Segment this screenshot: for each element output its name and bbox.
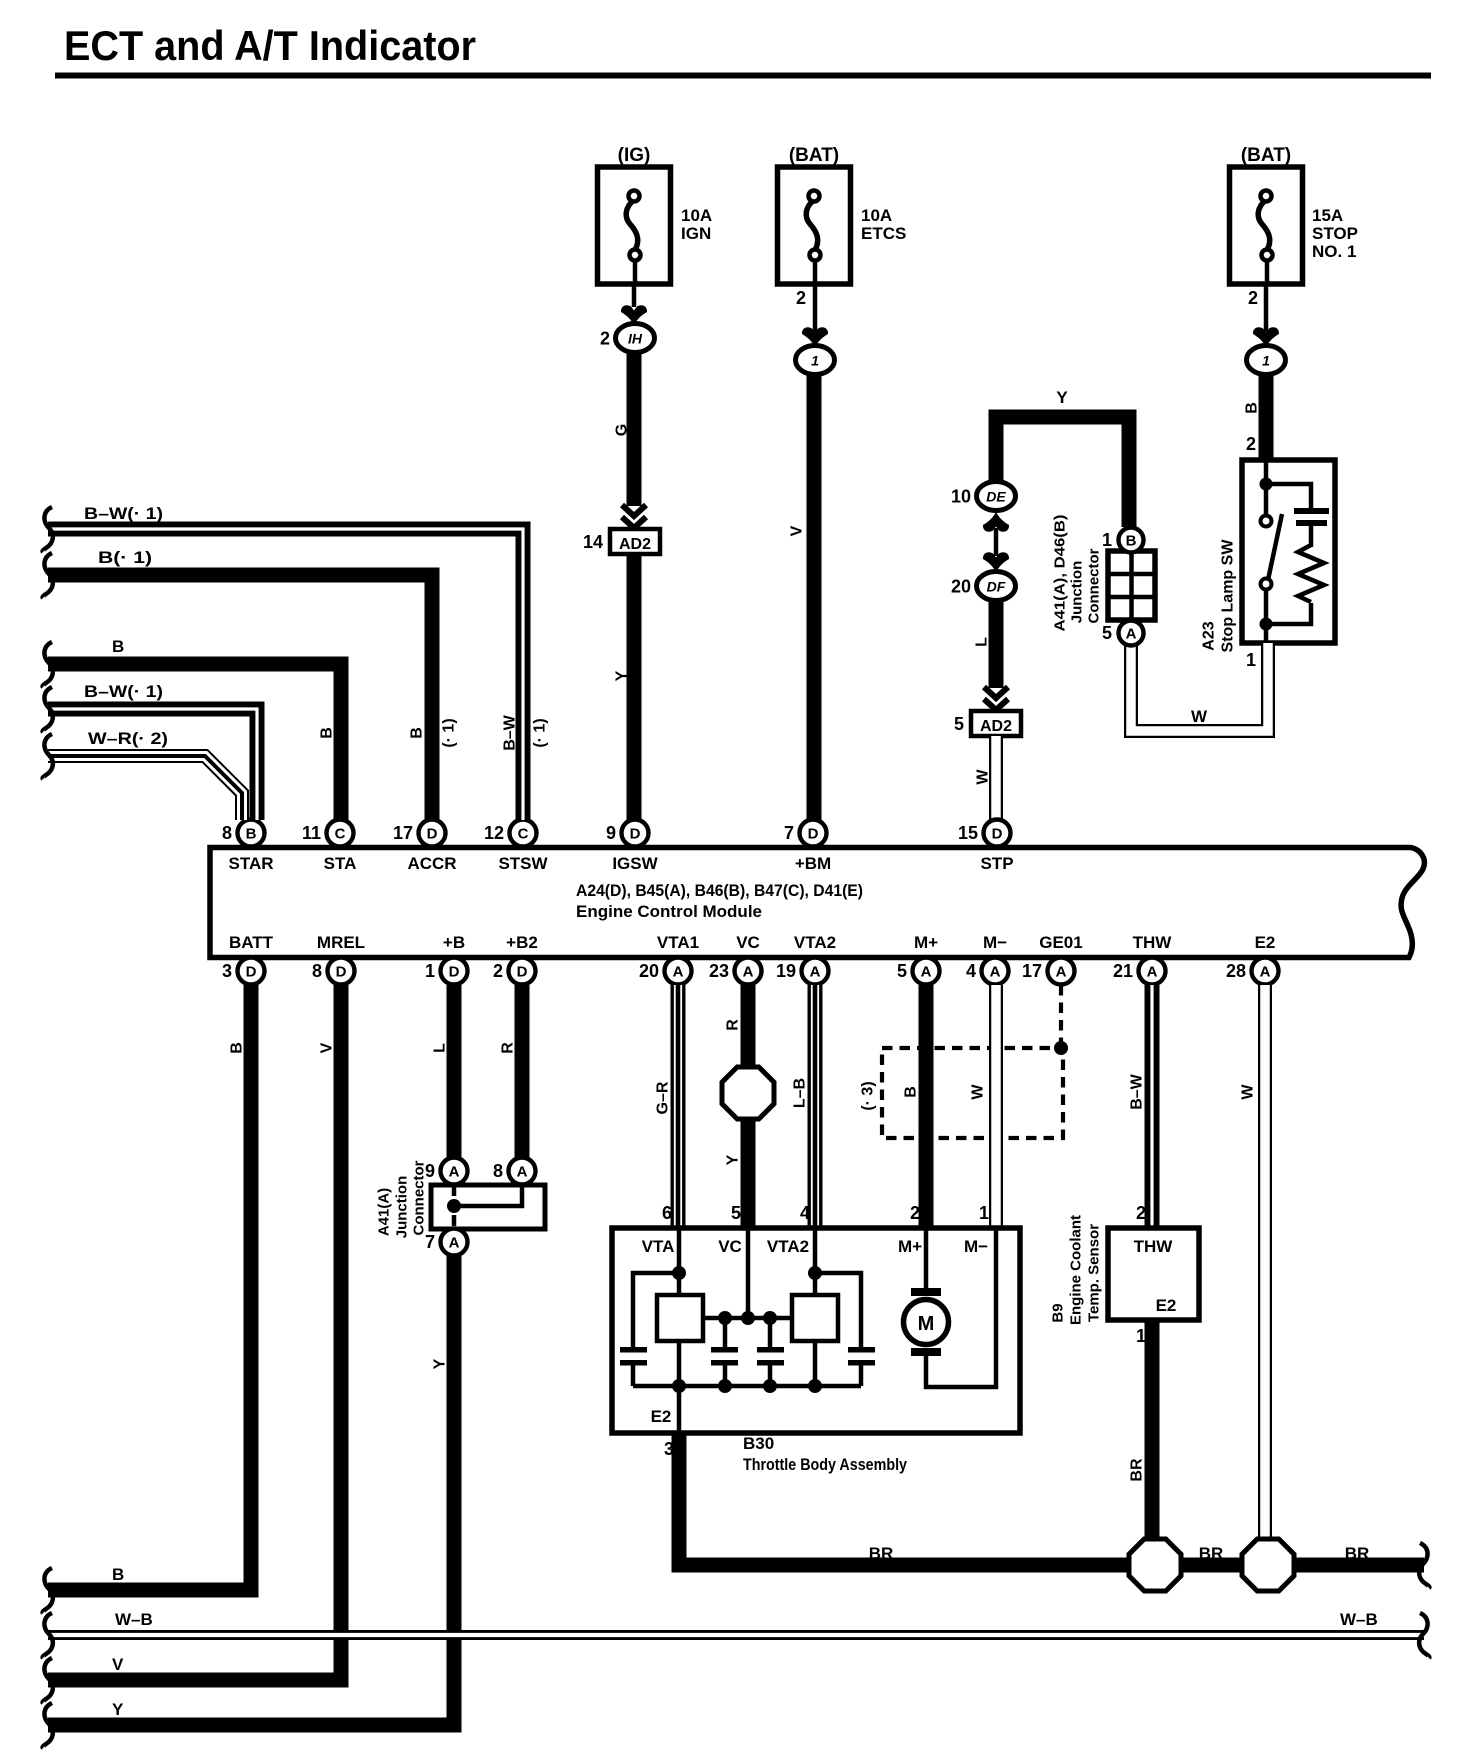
svg-text:BR: BR — [1129, 1458, 1146, 1482]
wire: fuse ETCS lead pin 2 — [813, 284, 818, 332]
svg-text:W–B: W–B — [115, 1610, 153, 1629]
svg-text:20: 20 — [951, 577, 971, 597]
wire L (DF to AD2) — [989, 600, 1004, 688]
svg-text:D: D — [336, 964, 347, 981]
svg-text:A: A — [517, 1164, 528, 1181]
svg-text:A: A — [449, 1164, 460, 1181]
svg-text:14: 14 — [583, 532, 603, 552]
svg-text:A: A — [673, 964, 684, 981]
svg-text:4: 4 — [800, 1203, 810, 1223]
wire L +B (pin 1 to junction 9) — [447, 985, 462, 1157]
svg-text:9: 9 — [606, 823, 616, 843]
junction connector A41(A) D46(B) grid — [1108, 551, 1155, 620]
svg-text:B: B — [319, 727, 336, 739]
svg-text:1: 1 — [1102, 530, 1112, 550]
octagon splice on VC wire — [722, 1067, 774, 1119]
curl W-B left — [43, 1613, 53, 1658]
svg-text:2: 2 — [1246, 434, 1256, 454]
curl W-R — [43, 734, 53, 779]
svg-text:M−: M− — [964, 1237, 988, 1256]
svg-text:7: 7 — [425, 1232, 435, 1252]
svg-text:ETCS: ETCS — [861, 224, 906, 243]
wire VC R/Y (pin 23 to throttle pin 5) — [741, 985, 756, 1228]
connector 7 A (junction) — [425, 1229, 468, 1256]
fuse 10A ETCS (BAT) — [778, 145, 907, 284]
svg-text:W: W — [1240, 1084, 1257, 1100]
svg-text:A: A — [1126, 626, 1137, 643]
wire W-R(.2) to STAR — [48, 756, 242, 820]
svg-text:L–B: L–B — [792, 1078, 809, 1108]
svg-text:R: R — [500, 1042, 517, 1054]
svg-text:E2: E2 — [1156, 1296, 1177, 1315]
arrow into IH connector — [621, 305, 647, 325]
wire B-W THW (pin 21 to sensor pin 2) — [1145, 985, 1160, 1228]
svg-text:IGN: IGN — [681, 224, 711, 243]
double chevron into AD2 — [622, 505, 646, 516]
svg-text:1: 1 — [979, 1203, 989, 1223]
svg-text:Y: Y — [725, 1154, 742, 1165]
wire V MREL (pin 8 to bottom left) — [48, 985, 341, 1680]
svg-text:E2: E2 — [1255, 933, 1276, 952]
svg-text:B: B — [1244, 402, 1261, 414]
svg-text:5: 5 — [1102, 623, 1112, 643]
svg-text:7: 7 — [784, 823, 794, 843]
svg-text:A: A — [743, 964, 754, 981]
svg-text:BR: BR — [1199, 1544, 1224, 1563]
svg-text:17: 17 — [1022, 961, 1042, 981]
svg-text:A23: A23 — [1201, 621, 1218, 650]
svg-text:1: 1 — [1136, 1326, 1146, 1346]
curl Y bottom — [43, 1703, 53, 1748]
svg-text:B: B — [246, 826, 257, 843]
svg-text:B: B — [409, 727, 426, 739]
svg-text:11: 11 — [302, 823, 321, 843]
svg-text:GE01: GE01 — [1039, 933, 1082, 952]
svg-text:A: A — [1056, 964, 1067, 981]
svg-text:MREL: MREL — [317, 933, 365, 952]
VTA sensor circuit — [677, 1228, 682, 1295]
svg-text:Y: Y — [432, 1358, 449, 1369]
svg-text:8: 8 — [222, 823, 232, 843]
svg-text:2: 2 — [1136, 1203, 1146, 1223]
svg-text:+B2: +B2 — [506, 933, 538, 952]
wire E2 out of sensor — [677, 1386, 682, 1433]
svg-text:B–W: B–W — [502, 714, 519, 750]
svg-text:IH: IH — [628, 331, 643, 347]
svg-text:THW: THW — [1133, 933, 1173, 952]
double chevron into AD2 (5) — [984, 687, 1008, 698]
svg-text:DF: DF — [987, 579, 1006, 595]
junction block 5 AD2 — [971, 711, 1021, 736]
svg-text:M: M — [918, 1313, 935, 1335]
svg-text:VTA: VTA — [642, 1237, 675, 1256]
wire Y (junction 7 to bottom left) — [48, 1256, 454, 1725]
svg-text:B: B — [112, 1565, 124, 1584]
svg-text:BR: BR — [1345, 1544, 1370, 1563]
engine coolant temp sensor B9 box — [1108, 1228, 1199, 1320]
svg-text:V: V — [112, 1655, 124, 1674]
svg-text:NO. 1: NO. 1 — [1312, 242, 1356, 261]
svg-text:B–W: B–W — [1129, 1073, 1146, 1109]
svg-text:A: A — [921, 964, 932, 981]
throttle motor M — [924, 1228, 929, 1292]
svg-text:10A: 10A — [861, 206, 892, 225]
svg-text:W: W — [1191, 707, 1208, 726]
svg-text:AD2: AD2 — [619, 536, 651, 553]
sensor ground rail — [633, 1384, 861, 1389]
svg-text:M+: M+ — [914, 933, 938, 952]
curl B-W top — [43, 507, 53, 552]
svg-text:STSW: STSW — [498, 854, 548, 873]
svg-text:10A: 10A — [681, 206, 712, 225]
svg-text:5: 5 — [731, 1203, 741, 1223]
svg-text:BR: BR — [869, 1544, 894, 1563]
engine control module band — [210, 848, 1424, 958]
svg-text:Y: Y — [1056, 388, 1068, 407]
octagon splice BR/THW — [1129, 1539, 1181, 1591]
title underline rule — [55, 73, 1431, 79]
svg-text:VC: VC — [718, 1237, 742, 1256]
svg-text:B: B — [112, 637, 124, 656]
junction connector A41(A) lower box — [431, 1185, 545, 1229]
wire W (AD2 to ECM pin 15 STP) — [989, 736, 1003, 820]
svg-text:10: 10 — [951, 487, 971, 507]
svg-text:B: B — [229, 1042, 246, 1054]
svg-text:2: 2 — [796, 288, 806, 308]
svg-text:1: 1 — [1262, 353, 1270, 369]
svg-text:A: A — [449, 1235, 460, 1252]
wire L-B VTA2 (pin 19 to throttle pin 4) — [808, 985, 823, 1228]
svg-text:BATT: BATT — [229, 933, 274, 952]
svg-text:2: 2 — [910, 1203, 920, 1223]
svg-text:A41(A), D46(B): A41(A), D46(B) — [1052, 514, 1069, 631]
wire IGSW Y (AD2 to ECM pin 9) — [627, 554, 642, 820]
svg-text:1: 1 — [1246, 650, 1256, 670]
connector 10 DE — [951, 482, 1016, 511]
svg-text:STAR: STAR — [228, 854, 273, 873]
svg-text:(· 1): (· 1) — [441, 718, 458, 747]
svg-text:THW: THW — [1134, 1237, 1174, 1256]
svg-text:D: D — [517, 964, 528, 981]
svg-text:AD2: AD2 — [980, 718, 1012, 735]
connector 1 (STOP) — [1247, 346, 1286, 375]
svg-text:ECT and A/T Indicator: ECT and A/T Indicator — [64, 22, 476, 69]
stop lamp switch A23 box — [1242, 460, 1335, 643]
svg-text:(IG): (IG) — [618, 145, 651, 166]
svg-text:IGSW: IGSW — [612, 854, 658, 873]
svg-text:9: 9 — [425, 1161, 435, 1181]
svg-text:Engine Control Module: Engine Control Module — [576, 902, 762, 921]
svg-text:D: D — [427, 826, 438, 843]
wire: fuse IGN lead — [632, 284, 637, 307]
svg-text:2: 2 — [1248, 288, 1258, 308]
svg-text:D: D — [246, 964, 257, 981]
svg-text:A: A — [810, 964, 821, 981]
svg-text:C: C — [335, 826, 346, 843]
switch internal wiring — [1264, 460, 1269, 516]
svg-text:6: 6 — [662, 1203, 672, 1223]
svg-text:VTA1: VTA1 — [657, 933, 699, 952]
svg-text:+B: +B — [443, 933, 465, 952]
wire B M+ (pin 5 to throttle pin 2) — [919, 985, 934, 1228]
svg-text:3: 3 — [222, 961, 232, 981]
svg-text:W–B: W–B — [1340, 1610, 1378, 1629]
switch contact bottom — [1261, 579, 1272, 590]
connector 20 DF — [951, 572, 1016, 601]
wire between DE and DF — [994, 528, 999, 556]
svg-text:G–R: G–R — [655, 1081, 672, 1114]
wire BR (throttle E2 to splices and right) — [679, 1433, 1424, 1565]
svg-text:M+: M+ — [898, 1237, 922, 1256]
svg-text:V: V — [319, 1042, 336, 1053]
svg-text:+BM: +BM — [795, 854, 831, 873]
fuse 15A STOP NO. 1 (BAT) — [1230, 145, 1358, 284]
svg-text:V: V — [789, 525, 806, 536]
fuse 10A IGN (IG) — [598, 145, 713, 284]
svg-text:W–R(· 2): W–R(· 2) — [88, 729, 168, 748]
svg-text:B: B — [903, 1086, 920, 1098]
wire W-B bottom rail — [48, 1630, 1424, 1640]
svg-text:12: 12 — [484, 823, 504, 843]
svg-text:B30: B30 — [743, 1434, 774, 1453]
svg-text:A24(D), B45(A), B46(B), B47(C): A24(D), B45(A), B46(B), B47(C), D41(E) — [576, 881, 863, 900]
capacitor branch in switch — [1266, 484, 1311, 509]
svg-text:8: 8 — [493, 1161, 503, 1181]
arrow down into DF — [983, 552, 1009, 572]
wire IGSW G (IH to AD2) — [627, 352, 642, 506]
svg-text:Engine Coolant: Engine Coolant — [1068, 1215, 1085, 1325]
svg-text:Y: Y — [614, 670, 631, 681]
curl B-W 2 — [43, 687, 53, 732]
svg-text:D: D — [808, 826, 819, 843]
svg-text:Junction: Junction — [394, 1176, 411, 1239]
svg-text:21: 21 — [1113, 961, 1133, 981]
capacitor C4 — [848, 1347, 875, 1353]
svg-text:B–W(· 1): B–W(· 1) — [84, 682, 163, 701]
svg-text:STOP: STOP — [1312, 224, 1358, 243]
sensor supply line — [703, 1316, 792, 1321]
wire: fuse STOP lead pin 2 — [1264, 284, 1269, 332]
svg-text:Throttle Body Assembly: Throttle Body Assembly — [743, 1455, 907, 1474]
connector 2 IH — [600, 324, 655, 353]
svg-text:A41(A): A41(A) — [376, 1188, 393, 1236]
svg-text:2: 2 — [493, 961, 503, 981]
wire G-R VTA1 (pin 20 to throttle pin 6) — [671, 985, 686, 1228]
svg-text:Y: Y — [112, 1700, 124, 1719]
svg-text:17: 17 — [393, 823, 413, 843]
svg-text:G: G — [614, 424, 631, 436]
wire W E2 (pin 28 to splice) — [1258, 985, 1272, 1541]
svg-text:4: 4 — [966, 961, 976, 981]
svg-text:(· 1): (· 1) — [532, 718, 549, 747]
curl B(.1) — [43, 553, 53, 598]
svg-text:(BAT): (BAT) — [1241, 145, 1291, 166]
svg-text:(BAT): (BAT) — [789, 145, 839, 166]
svg-text:(· 3): (· 3) — [860, 1081, 877, 1110]
svg-text:W: W — [970, 1084, 987, 1100]
svg-text:E2: E2 — [651, 1407, 672, 1426]
svg-text:A: A — [1260, 964, 1271, 981]
throttle body assembly B30 box — [612, 1228, 1020, 1433]
curl V bottom — [43, 1658, 53, 1703]
svg-text:VC: VC — [736, 933, 760, 952]
connector 1 B (junction top) — [1102, 528, 1144, 553]
switch blade — [1268, 514, 1282, 580]
svg-text:L: L — [974, 637, 991, 647]
svg-text:M−: M− — [983, 933, 1007, 952]
svg-text:D: D — [449, 964, 460, 981]
svg-text:2: 2 — [600, 329, 610, 349]
curl B bottom — [43, 1568, 53, 1613]
wire W M- (pin 4 to throttle pin 1) — [989, 985, 1003, 1228]
svg-text:19: 19 — [776, 961, 796, 981]
svg-text:C: C — [518, 826, 529, 843]
junction block 14 AD2 — [610, 529, 660, 554]
svg-text:B9: B9 — [1050, 1303, 1067, 1322]
svg-text:B: B — [1126, 533, 1137, 550]
svg-text:W: W — [975, 769, 992, 785]
svg-text:Temp. Sensor: Temp. Sensor — [1086, 1224, 1103, 1322]
svg-text:1: 1 — [425, 961, 435, 981]
wire B-W(.1) to STSW — [48, 529, 523, 820]
svg-text:1: 1 — [811, 353, 819, 369]
svg-text:5: 5 — [897, 961, 907, 981]
svg-text:Junction: Junction — [1069, 561, 1086, 624]
resistor in switch — [1298, 545, 1324, 602]
connector 8 A (junction) — [493, 1158, 536, 1185]
capacitor C2 — [723, 1318, 728, 1347]
connector 5 A (junction bottom) — [1102, 621, 1144, 646]
wire +BM V (to ECM pin 7) — [807, 374, 822, 820]
switch contact top — [1261, 516, 1272, 527]
arrow up into DE — [983, 512, 1009, 532]
wire B to stop lamp switch pin 2 — [1259, 374, 1274, 460]
wire R +B2 (pin 2 to junction 8) — [515, 985, 530, 1157]
wire Y loop (DE to junction connector B) — [996, 417, 1129, 527]
curl W-B right — [1419, 1613, 1429, 1658]
svg-text:B–W(· 1): B–W(· 1) — [84, 504, 163, 523]
svg-text:D: D — [630, 826, 641, 843]
svg-text:R: R — [725, 1019, 742, 1031]
connector 1 (ETCS) — [796, 346, 835, 375]
VTA sensor element square — [657, 1295, 703, 1341]
dashed wire GE01 (pin 17) — [1059, 985, 1063, 1048]
svg-text:15A: 15A — [1312, 206, 1343, 225]
capacitor C3 — [768, 1318, 773, 1347]
svg-text:B(· 1): B(· 1) — [98, 548, 152, 567]
octagon splice BR/E2 — [1242, 1539, 1294, 1591]
svg-text:STP: STP — [980, 854, 1013, 873]
curl BR right — [1419, 1543, 1429, 1588]
dashed box (.3) — [882, 1048, 1063, 1138]
svg-text:DE: DE — [986, 489, 1006, 505]
svg-text:STA: STA — [324, 854, 357, 873]
svg-text:VTA2: VTA2 — [767, 1237, 809, 1256]
wire B(.1) to ACCR — [48, 575, 432, 820]
connector 9 A (junction) — [425, 1158, 468, 1185]
svg-text:VTA2: VTA2 — [794, 933, 836, 952]
svg-text:Connector: Connector — [1086, 548, 1103, 623]
wire B to STA — [48, 664, 341, 820]
VTA2 sensor element square — [813, 1228, 818, 1295]
svg-text:L: L — [432, 1043, 449, 1053]
svg-text:Stop Lamp SW: Stop Lamp SW — [1220, 539, 1237, 653]
svg-text:8: 8 — [312, 961, 322, 981]
wire VC into supply line — [746, 1228, 751, 1318]
svg-text:A: A — [1147, 964, 1158, 981]
svg-text:D: D — [992, 826, 1003, 843]
curl B — [43, 642, 53, 687]
wire B-W(.1) to STAR — [48, 709, 257, 820]
arrow into connector 1 (stop) — [1253, 327, 1279, 347]
arrow into connector 1 — [802, 327, 828, 347]
svg-text:5: 5 — [954, 714, 964, 734]
svg-text:23: 23 — [709, 961, 729, 981]
svg-text:A: A — [990, 964, 1001, 981]
svg-text:28: 28 — [1226, 961, 1246, 981]
svg-text:20: 20 — [639, 961, 659, 981]
svg-text:ACCR: ACCR — [407, 854, 456, 873]
capacitor C1 — [620, 1347, 647, 1353]
wire B BATT (pin 3 to bottom left) — [48, 985, 251, 1590]
svg-text:15: 15 — [958, 823, 978, 843]
